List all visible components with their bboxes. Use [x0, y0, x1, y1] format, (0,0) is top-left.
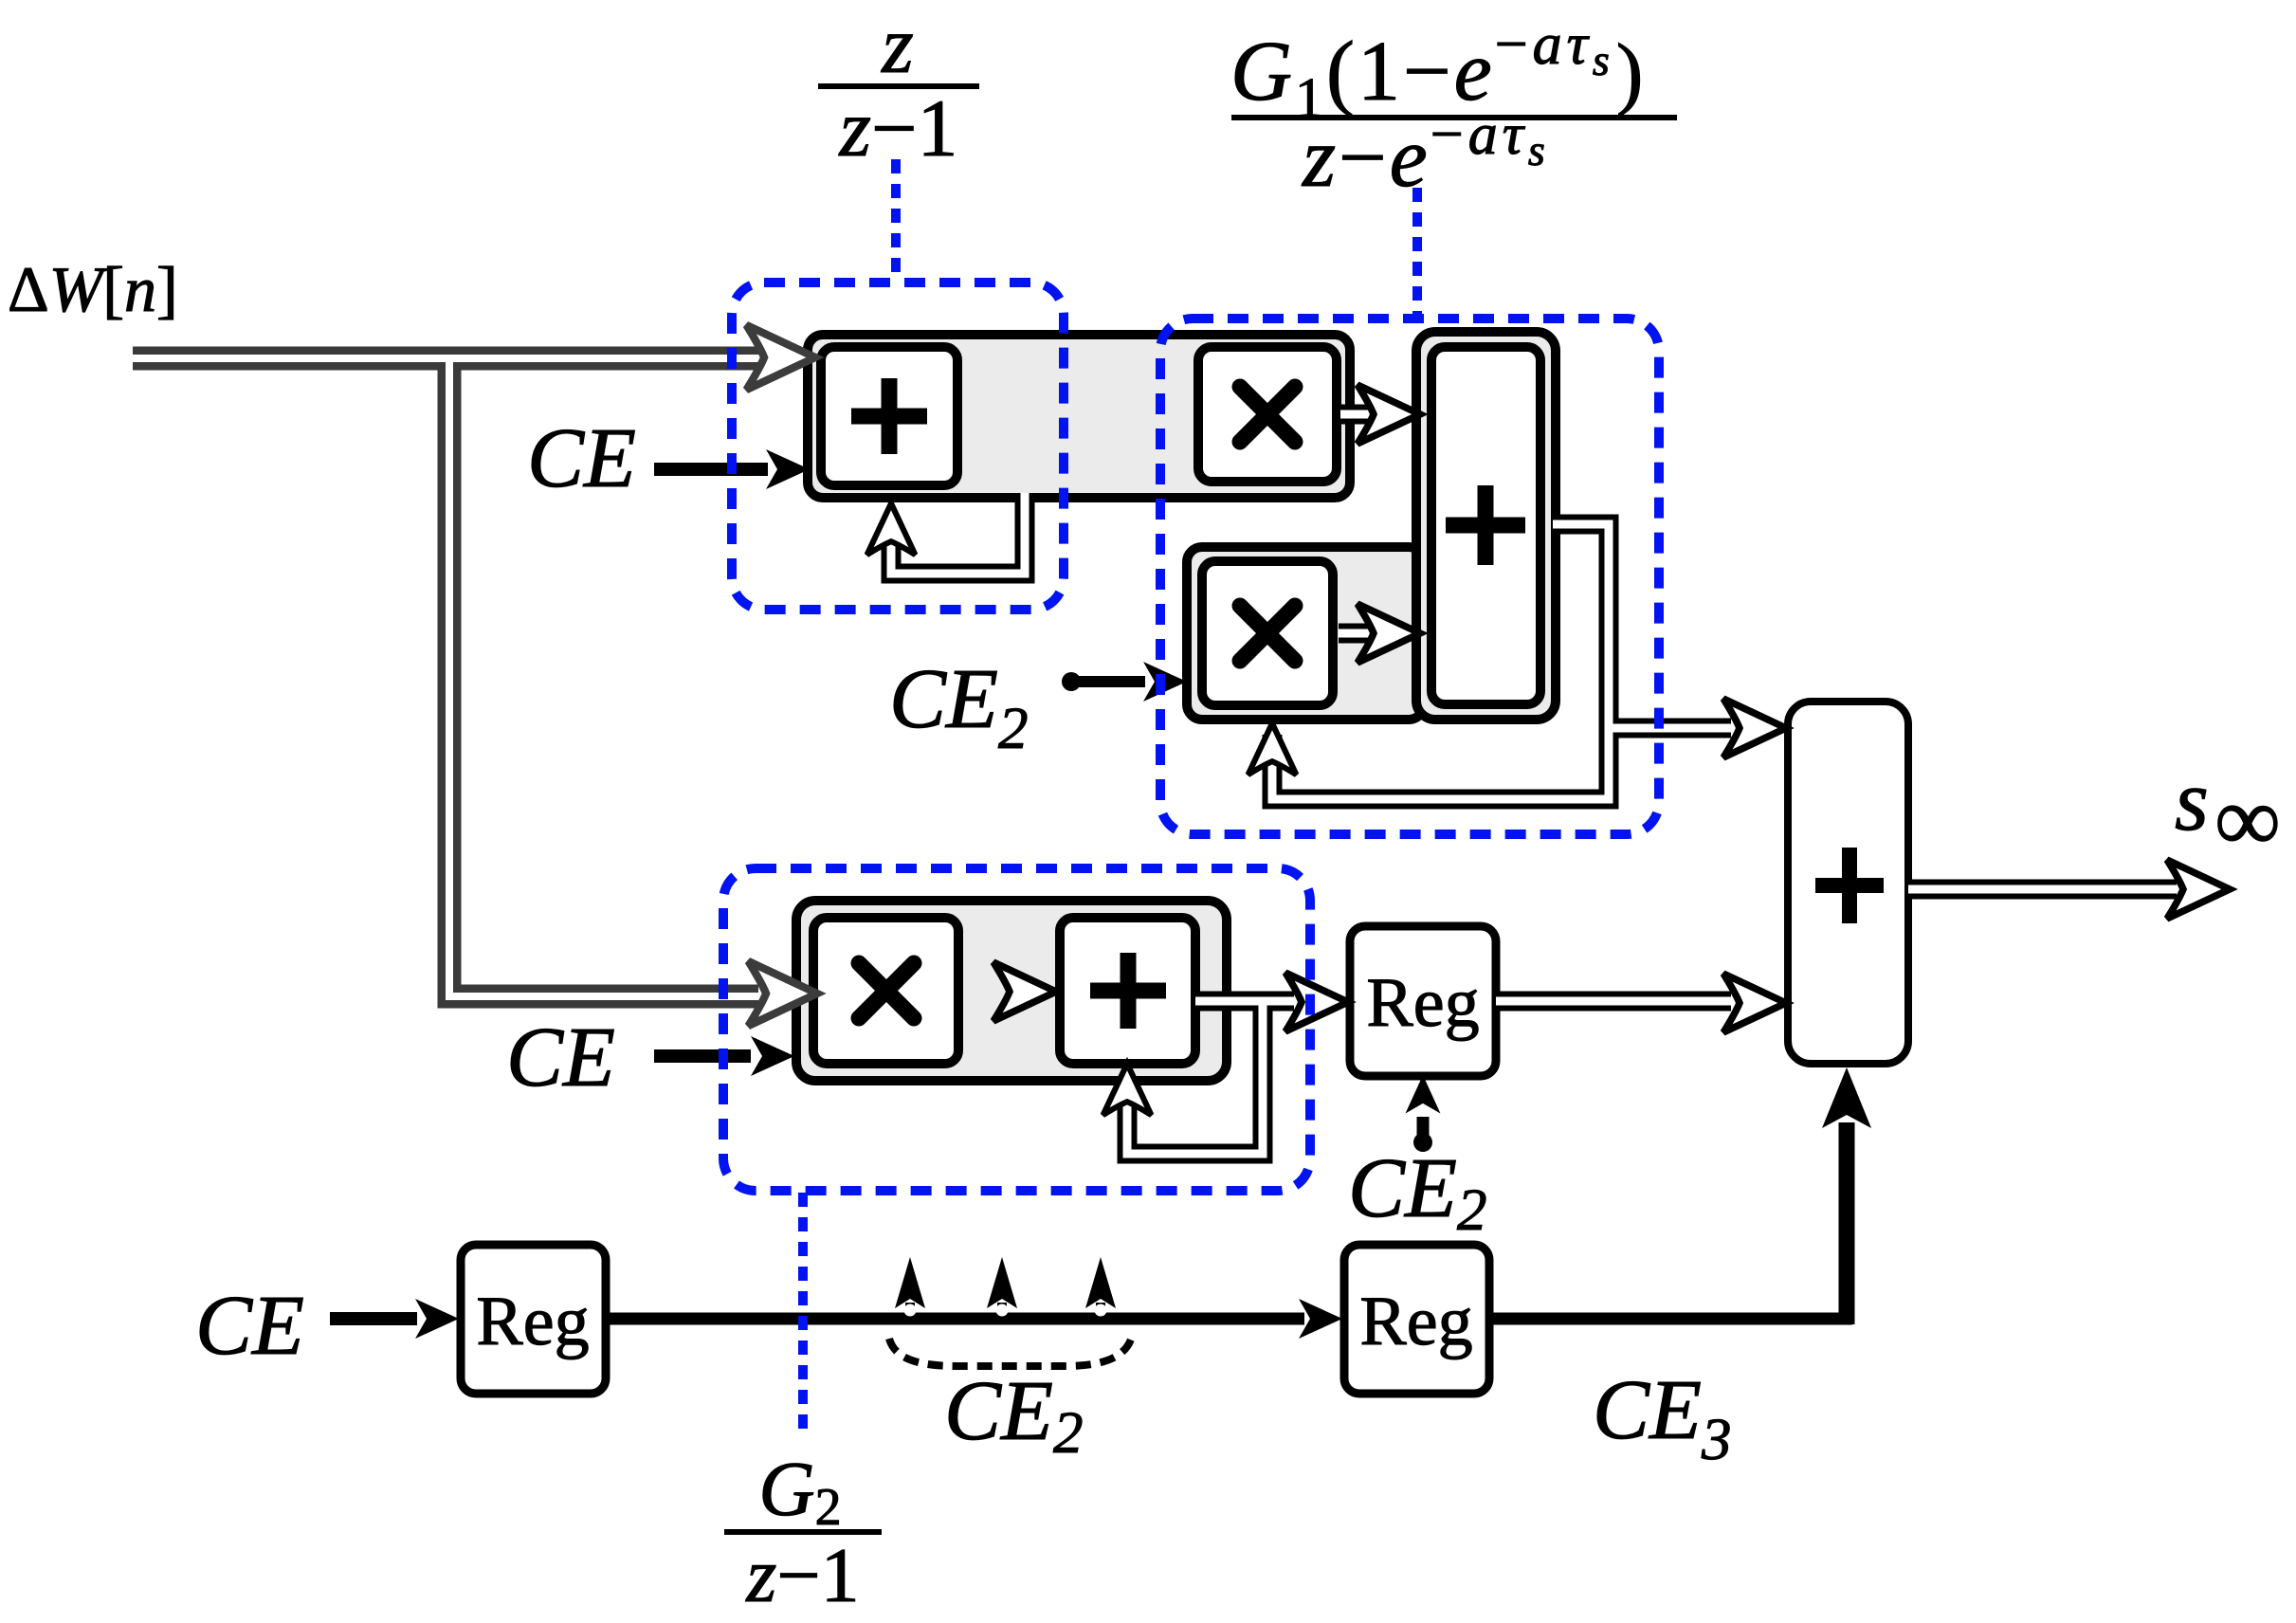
wire cores: white inner of black tubes	[891, 414, 2177, 1154]
register container of G2 accumulator	[796, 901, 1227, 1081]
register container bar (accumulator z/(z-1) and upper multiplier)	[808, 335, 1350, 498]
register container of tall adder U2	[1416, 332, 1556, 720]
plus sign of block3 adder	[1090, 953, 1166, 1029]
register Reg2 (bottom left CE delay)	[461, 1245, 606, 1394]
plus sign of block1 adder	[851, 378, 927, 454]
wire: block2 output to final adder	[1609, 719, 1731, 739]
open arrowhead: block3 output into Reg1	[1285, 973, 1348, 1031]
blue dashed group box 1 : z/(z-1)	[732, 283, 1064, 610]
svg-text:CE2: CE2	[944, 1364, 1084, 1466]
open arrowhead: Reg1 output into final adder	[1723, 974, 1786, 1032]
leader line from G1 label to box2	[1412, 188, 1422, 314]
svg-text:s: s	[2175, 752, 2209, 848]
thick CE wire from Reg2 to Reg3	[606, 1313, 1304, 1325]
wire: Reg1 output to final adder	[1496, 992, 1731, 1012]
adder box (block 3)	[1060, 918, 1195, 1064]
dashed underbrace for CE2 group	[889, 1337, 1132, 1366]
svg-text:z: z	[881, 0, 913, 90]
open arrowhead: block3 multiplier to block3 adder	[993, 962, 1056, 1021]
CE3 solid arrowhead up into final adder	[1822, 1067, 1871, 1128]
tall adder box (block 2)	[1431, 347, 1540, 704]
leader line from box3 to G2 label	[798, 1193, 808, 1437]
open arrowhead: into block3 multiplier (gray, large)	[748, 961, 817, 1026]
lower multiplier box (block 2)	[1202, 561, 1333, 705]
blue dashed group box 2 : G1 section	[1160, 319, 1659, 834]
svg-text:CE3: CE3	[1593, 1363, 1732, 1472]
label z/(z-1) fraction bar	[818, 83, 979, 89]
wire: gray bus input dW[n] to block1 adder	[133, 347, 760, 371]
wire: upper multiplier to tall adder	[1340, 405, 1386, 425]
CE solid arrow into Reg2	[330, 1312, 417, 1325]
open arrowhead: block1 feedback up into accumulator	[867, 503, 916, 555]
open arrowhead: into block1 adder (gray, large)	[746, 325, 815, 390]
svg-text:Reg: Reg	[1366, 964, 1479, 1042]
svg-text:z−1: z−1	[745, 1532, 859, 1618]
open arrowhead: final output s_inf	[2167, 860, 2230, 919]
CE solid arrow into block3 multiplier	[654, 1049, 751, 1063]
label G2 fraction bar	[724, 1529, 882, 1535]
times sign of lower multiplier	[1240, 606, 1295, 661]
wire: block1 accumulator feedback loop	[891, 493, 1025, 574]
open arrowhead: upper multiplier to tall adder	[1358, 385, 1420, 444]
svg-text:∞: ∞	[2214, 769, 2281, 871]
small clock arrow 3 on CE wire	[1096, 1303, 1105, 1319]
svg-text:CE2: CE2	[889, 652, 1029, 761]
svg-text:Reg: Reg	[1359, 1283, 1472, 1360]
final output adder	[1788, 702, 1908, 1064]
CE solid arrow into block1 adder	[654, 463, 768, 476]
open arrowhead: lower multiplier to tall adder	[1358, 604, 1420, 663]
wire: gray bus branch down to block3 multiplier	[449, 358, 758, 996]
svg-text:ΔW[n]: ΔW[n]	[8, 253, 178, 325]
svg-text:z−e−aτs: z−e−aτs	[1301, 102, 1548, 205]
svg-text:Reg: Reg	[476, 1283, 589, 1360]
small clock arrow 2 on CE wire	[997, 1303, 1007, 1319]
upper multiplier box (block 2)	[1198, 347, 1337, 482]
wire: block3 adder output to Reg1	[1195, 992, 1294, 1012]
wire: final adder output	[1908, 880, 2177, 900]
svg-text:CE: CE	[527, 411, 636, 505]
CE2 solid arrow into lower multiplier	[1062, 672, 1081, 691]
blue dashed group box 3 : G2 section	[723, 868, 1310, 1191]
small clock arrow 1 on CE wire	[905, 1303, 915, 1319]
wire: lower multiplier to tall adder	[1339, 624, 1386, 644]
times sign of upper multiplier	[1240, 387, 1295, 442]
wire core: white inner of gray bus	[133, 358, 760, 996]
plus sign of tall adder	[1446, 485, 1525, 565]
svg-text:CE2: CE2	[1348, 1141, 1487, 1243]
wire: block2 adder output and feedback loop	[1272, 524, 1609, 799]
solid arrowhead into Reg3	[1299, 1299, 1342, 1339]
wire: block3 feedback loop	[1127, 1001, 1263, 1154]
open arrowhead: block2 feedback up into lower multiplier	[1248, 723, 1297, 775]
CE2 solid arrow up into Reg1	[1413, 1133, 1432, 1152]
label G1 fraction bar	[1231, 115, 1677, 120]
times sign of block3 multiplier	[859, 963, 914, 1018]
adder box (block 1 accumulator)	[821, 347, 957, 485]
leader line from z/(z-1) label to box1	[891, 159, 901, 278]
multiplier box (block 3)	[813, 918, 958, 1064]
register Reg1 (after block3)	[1350, 926, 1496, 1076]
thick CE3 wire from Reg3 up to final adder	[1489, 1313, 1852, 1325]
svg-text:CE: CE	[195, 1279, 304, 1373]
register Reg3 (bottom right CE delay)	[1344, 1245, 1489, 1394]
svg-text:G2: G2	[758, 1446, 841, 1537]
register container pipe (lower multiplier to tall adder)	[1187, 547, 1424, 720]
open arrowhead: block2 output into final adder	[1723, 699, 1786, 757]
svg-text:CE: CE	[506, 1011, 615, 1104]
svg-text:z−1: z−1	[839, 82, 958, 173]
open arrowhead: block3 feedback up into adder	[1103, 1064, 1152, 1115]
plus sign of final adder	[1815, 848, 1884, 923]
